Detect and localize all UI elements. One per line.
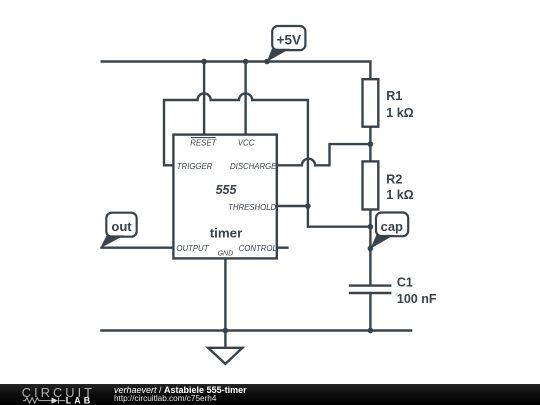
svg-text:out: out — [111, 219, 132, 234]
junction dot R2 bottom node — [368, 224, 374, 230]
svg-text:+5V: +5V — [277, 32, 301, 47]
CircuitLab logo — [0, 384, 100, 405]
svg-text:DISCHARGE: DISCHARGE — [230, 162, 277, 171]
svg-text:R2: R2 — [386, 172, 402, 186]
resistor R1 — [363, 79, 414, 127]
wire C1 bottom to ground rail — [369, 293, 371, 331]
footer bar — [0, 384, 540, 405]
svg-text:cap: cap — [381, 219, 403, 234]
svg-text:THRESHOLD: THRESHOLD — [228, 203, 276, 212]
resistor R1 body — [363, 79, 379, 127]
IC U1 body — [173, 135, 276, 259]
capacitor C1 plates — [349, 286, 392, 293]
wire R2 to C1 top — [369, 210, 371, 286]
svg-text:VCC: VCC — [238, 138, 255, 147]
svg-text:OUTPUT: OUTPUT — [176, 244, 209, 253]
wire ground bottom rail — [100, 329, 412, 331]
junction dot R1/R2/discharge — [368, 141, 374, 147]
wire VCC pin drop from +5V rail — [244, 62, 246, 135]
resistor R2 body — [363, 161, 379, 209]
wire R1 to R2 — [369, 127, 371, 162]
svg-text:R1: R1 — [386, 89, 402, 103]
svg-text:RESET: RESET — [190, 138, 217, 147]
svg-text:TRIGGER: TRIGGER — [177, 162, 213, 171]
svg-text:CONTROL: CONTROL — [239, 244, 277, 253]
wire +5V top rail — [101, 62, 371, 80]
net flag cap — [370, 213, 408, 249]
junction dot +5V flag tap — [264, 59, 270, 65]
junction dot VCC/rail — [243, 59, 249, 65]
svg-text:C1: C1 — [397, 275, 413, 289]
net flag out — [100, 213, 137, 249]
wire TRIGGER to THRESHOLD net (with hops) — [164, 93, 370, 226]
junction dot GND/rail — [223, 328, 229, 334]
svg-text:1 kΩ: 1 kΩ — [386, 106, 413, 120]
IC U1 555 timer box — [173, 135, 277, 259]
junction dot C1/rail — [368, 328, 374, 334]
wire CONTROL no-connect stub — [277, 246, 289, 248]
junction dot cap flag tap — [368, 246, 374, 252]
RESET active-low overline — [191, 137, 216, 139]
footer attribution text — [114, 386, 247, 394]
resistor R2 — [363, 161, 414, 209]
wire GND pin to ground rail — [224, 258, 226, 330]
svg-text:LAB: LAB — [66, 396, 93, 405]
wire RESET pin drop from +5V rail — [203, 62, 205, 135]
wire DISCHARGE to R1/R2 junction (with hop) — [277, 144, 371, 165]
svg-text:100 nF: 100 nF — [397, 292, 437, 306]
logo resistor zigzag and wire — [23, 398, 65, 404]
wire THRESHOLD pin stub — [277, 205, 308, 207]
svg-text:1 kΩ: 1 kΩ — [386, 188, 413, 202]
capacitor C1 — [349, 275, 437, 306]
svg-text:GND: GND — [218, 251, 234, 258]
junction dot THRESHOLD — [305, 203, 311, 209]
ground symbol — [208, 331, 242, 364]
svg-text:555: 555 — [216, 183, 238, 197]
logo diode symbol — [52, 398, 59, 404]
svg-text:timer: timer — [210, 225, 243, 240]
junction dot RESET/rail — [201, 59, 207, 65]
wire OUTPUT to out flag — [100, 246, 173, 248]
net flag +5V — [267, 26, 306, 62]
